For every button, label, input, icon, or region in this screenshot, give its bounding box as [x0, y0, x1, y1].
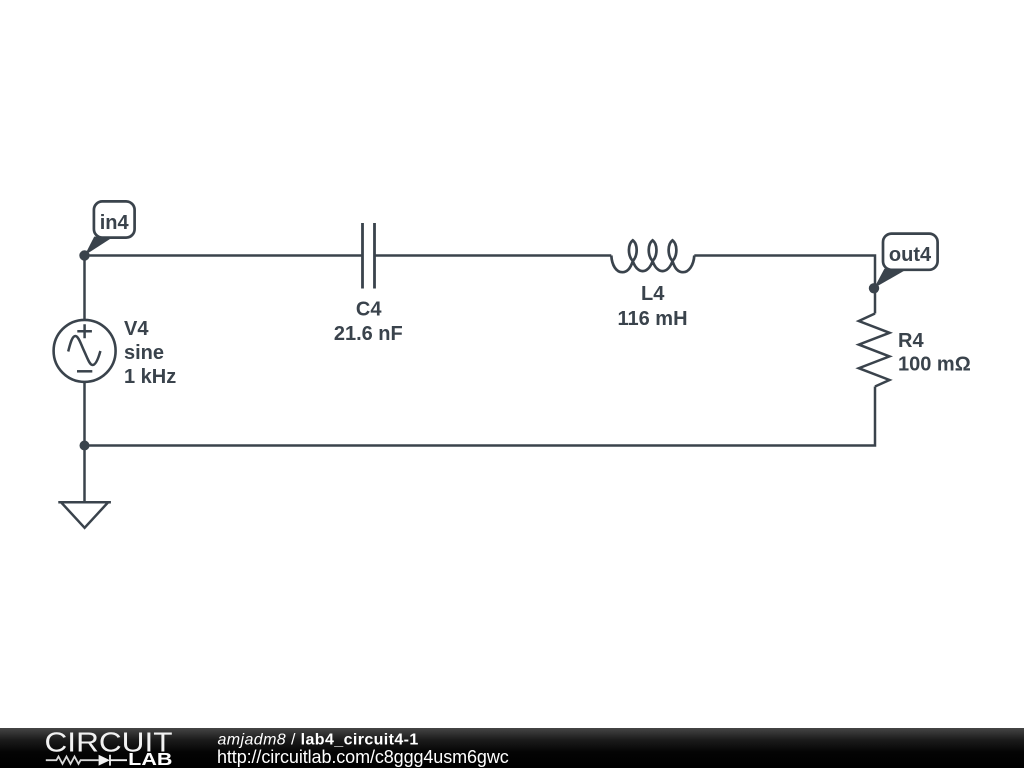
- V4 sine wave: [68, 336, 100, 365]
- in4 callout tail: [85, 237, 114, 256]
- svg-text:21.6 nF: 21.6 nF: [334, 323, 403, 345]
- svg-text:in4: in4: [100, 212, 130, 234]
- wire source bottom to bottom node and ground: [83, 381, 86, 502]
- R4 labels: [898, 330, 971, 376]
- inductor L4 coil: [611, 240, 694, 272]
- V4 minus sign: [77, 370, 92, 373]
- L4 labels: [617, 283, 687, 330]
- svg-text:R4: R4: [898, 330, 924, 352]
- ground symbol: [58, 502, 111, 528]
- in4 callout box: [94, 201, 135, 237]
- V4 plus sign: [77, 324, 92, 338]
- wire capacitor to inductor: [375, 254, 612, 257]
- wire top-left node to capacitor: [85, 254, 363, 257]
- svg-text:sine: sine: [124, 342, 164, 364]
- voltage source V4 circle: [54, 320, 116, 382]
- node dot out4: [869, 283, 879, 293]
- svg-text:V4: V4: [124, 318, 149, 340]
- svg-text:100 mΩ: 100 mΩ: [898, 354, 971, 376]
- resistor R4 zigzag: [859, 314, 890, 387]
- C4 labels: [334, 299, 403, 346]
- out4 callout box: [883, 234, 938, 270]
- wire left node down to source top: [83, 256, 86, 322]
- svg-text:out4: out4: [889, 244, 932, 266]
- capacitor C4 plates: [363, 223, 375, 289]
- logo resistor-diode glyph: [46, 757, 99, 764]
- footer bar: [0, 728, 1024, 768]
- logo diode: [99, 755, 110, 766]
- node dot in4: [79, 250, 89, 260]
- wire inductor to right corner and down to resistor: [694, 256, 875, 314]
- svg-text:1 kHz: 1 kHz: [124, 366, 176, 388]
- svg-text:LAB: LAB: [128, 749, 172, 768]
- node dot bottom-left: [80, 441, 90, 451]
- svg-text:116 mH: 116 mH: [617, 308, 687, 330]
- svg-text:http://circuitlab.com/c8ggg4us: http://circuitlab.com/c8ggg4usm6gwc: [217, 747, 509, 767]
- out4 callout tail: [874, 269, 908, 288]
- wire resistor bottom to bottom wire and back to left node: [85, 387, 876, 446]
- svg-text:L4: L4: [641, 283, 665, 305]
- V4 labels: [124, 318, 176, 388]
- svg-text:C4: C4: [356, 299, 382, 321]
